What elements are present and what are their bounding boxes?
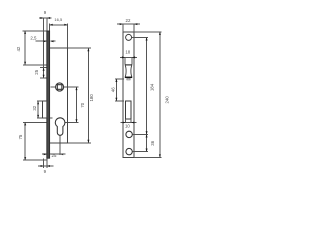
svg-text:10: 10	[125, 123, 130, 128]
svg-text:36: 36	[150, 140, 155, 145]
svg-text:180: 180	[89, 94, 94, 102]
svg-text:184: 184	[150, 83, 155, 91]
svg-text:16,5: 16,5	[54, 17, 63, 22]
svg-text:2,5: 2,5	[30, 35, 37, 40]
svg-text:42: 42	[16, 46, 21, 51]
svg-text:240: 240	[164, 96, 169, 104]
svg-text:32: 32	[32, 105, 37, 110]
svg-text:22: 22	[126, 18, 131, 23]
svg-text:70: 70	[80, 102, 85, 107]
svg-text:25: 25	[52, 153, 57, 158]
svg-text:25: 25	[34, 69, 39, 74]
svg-text:75: 75	[18, 134, 23, 139]
svg-text:18: 18	[125, 50, 130, 55]
svg-text:46: 46	[110, 87, 115, 92]
